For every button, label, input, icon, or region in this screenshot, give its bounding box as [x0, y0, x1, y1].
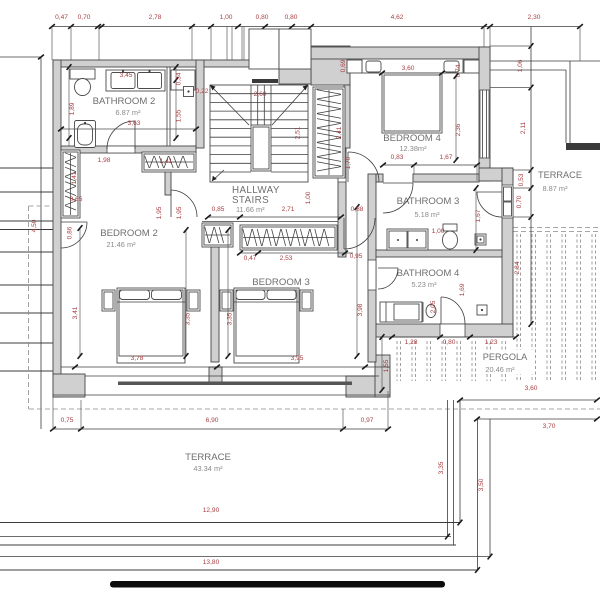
- svg-text:0,70: 0,70: [78, 14, 91, 21]
- svg-text:4,50: 4,50: [31, 219, 38, 232]
- svg-text:1,95: 1,95: [156, 206, 163, 219]
- svg-text:20.46 m²: 20.46 m²: [485, 365, 515, 374]
- svg-text:BATHROOM 4: BATHROOM 4: [397, 268, 460, 279]
- svg-text:1,69: 1,69: [459, 283, 466, 296]
- svg-text:3,45: 3,45: [120, 72, 133, 79]
- svg-text:TERRACE: TERRACE: [538, 170, 582, 180]
- svg-text:1,23: 1,23: [485, 339, 498, 346]
- svg-text:1,55: 1,55: [383, 359, 390, 372]
- svg-text:2,36: 2,36: [455, 123, 462, 136]
- svg-text:1,28: 1,28: [405, 339, 418, 346]
- svg-text:0,80: 0,80: [256, 14, 269, 21]
- svg-text:43.34 m²: 43.34 m²: [193, 464, 223, 473]
- svg-text:12.38m²: 12.38m²: [399, 144, 427, 153]
- svg-text:3,60: 3,60: [525, 385, 538, 392]
- svg-text:6,90: 6,90: [206, 417, 219, 424]
- svg-text:6.87 m²: 6.87 m²: [115, 108, 141, 117]
- svg-text:1,06: 1,06: [517, 59, 524, 72]
- svg-text:12,90: 12,90: [203, 507, 220, 514]
- svg-text:2,71: 2,71: [282, 206, 295, 213]
- svg-text:1,98: 1,98: [98, 157, 111, 164]
- svg-text:2,30: 2,30: [528, 14, 541, 21]
- svg-text:3,78: 3,78: [131, 355, 144, 362]
- svg-text:0,69: 0,69: [340, 59, 347, 72]
- svg-text:2,51: 2,51: [295, 126, 302, 139]
- svg-text:TERRACE: TERRACE: [185, 452, 231, 463]
- svg-text:BEDROOM 2: BEDROOM 2: [100, 228, 158, 239]
- svg-text:0,97: 0,97: [361, 417, 374, 424]
- svg-text:1,41: 1,41: [160, 158, 173, 165]
- svg-text:2,11: 2,11: [520, 121, 527, 134]
- svg-text:1,67: 1,67: [440, 154, 453, 161]
- svg-text:PERGOLA: PERGOLA: [483, 352, 528, 362]
- svg-text:8.87 m²: 8.87 m²: [542, 184, 568, 193]
- svg-text:21.46 m²: 21.46 m²: [106, 240, 136, 249]
- svg-text:0,86: 0,86: [67, 226, 74, 239]
- svg-text:1,95: 1,95: [176, 206, 183, 219]
- svg-text:0,83: 0,83: [391, 154, 404, 161]
- svg-text:BEDROOM 3: BEDROOM 3: [252, 277, 310, 288]
- svg-text:0,53: 0,53: [518, 173, 525, 186]
- svg-text:1,00: 1,00: [432, 228, 445, 235]
- svg-text:5.23 m²: 5.23 m²: [411, 280, 437, 289]
- svg-text:0,88: 0,88: [351, 206, 364, 213]
- svg-text:0,22: 0,22: [196, 88, 209, 95]
- svg-text:0,34: 0,34: [176, 72, 183, 85]
- svg-text:1,00: 1,00: [305, 191, 312, 204]
- svg-text:3,63: 3,63: [128, 120, 141, 127]
- svg-text:3,50: 3,50: [478, 478, 485, 491]
- svg-text:4,62: 4,62: [391, 14, 404, 21]
- svg-text:0,70: 0,70: [516, 195, 523, 208]
- svg-text:3,95: 3,95: [291, 355, 304, 362]
- svg-text:1,67: 1,67: [475, 209, 482, 222]
- svg-text:2,41: 2,41: [336, 126, 343, 139]
- svg-text:2,53: 2,53: [280, 255, 293, 262]
- svg-text:1,00: 1,00: [220, 14, 233, 21]
- svg-text:5.18 m²: 5.18 m²: [414, 210, 440, 219]
- svg-text:0,47: 0,47: [55, 14, 68, 21]
- svg-text:13,80: 13,80: [203, 559, 220, 566]
- svg-text:0,80: 0,80: [443, 339, 456, 346]
- svg-text:3,98: 3,98: [357, 303, 364, 316]
- svg-text:3,70: 3,70: [543, 423, 556, 430]
- svg-text:0,85: 0,85: [212, 206, 225, 213]
- svg-text:0,80: 0,80: [285, 14, 298, 21]
- svg-text:1,89: 1,89: [69, 102, 76, 115]
- svg-text:2,78: 2,78: [149, 14, 162, 21]
- svg-text:0,75: 0,75: [61, 417, 74, 424]
- svg-text:3,41: 3,41: [72, 306, 79, 319]
- svg-text:0,65: 0,65: [70, 196, 83, 203]
- svg-text:3,60: 3,60: [402, 65, 415, 72]
- svg-text:3,35: 3,35: [438, 461, 445, 474]
- svg-text:1,41: 1,41: [71, 171, 78, 184]
- svg-text:11.66 m²: 11.66 m²: [236, 205, 265, 214]
- svg-text:2,60: 2,60: [254, 91, 267, 98]
- svg-text:3,35: 3,35: [227, 312, 234, 325]
- svg-text:BEDROOM 4: BEDROOM 4: [383, 133, 441, 144]
- svg-text:1,55: 1,55: [176, 109, 183, 122]
- svg-text:0,95: 0,95: [350, 253, 363, 260]
- svg-text:BATHROOM 2: BATHROOM 2: [93, 96, 156, 107]
- svg-text:0,47: 0,47: [244, 255, 257, 262]
- svg-text:BATHROOM 3: BATHROOM 3: [397, 196, 460, 207]
- svg-text:1,70: 1,70: [345, 156, 352, 169]
- svg-text:3,35: 3,35: [185, 312, 192, 325]
- svg-text:2,84: 2,84: [514, 261, 521, 274]
- svg-text:2,05: 2,05: [430, 300, 437, 313]
